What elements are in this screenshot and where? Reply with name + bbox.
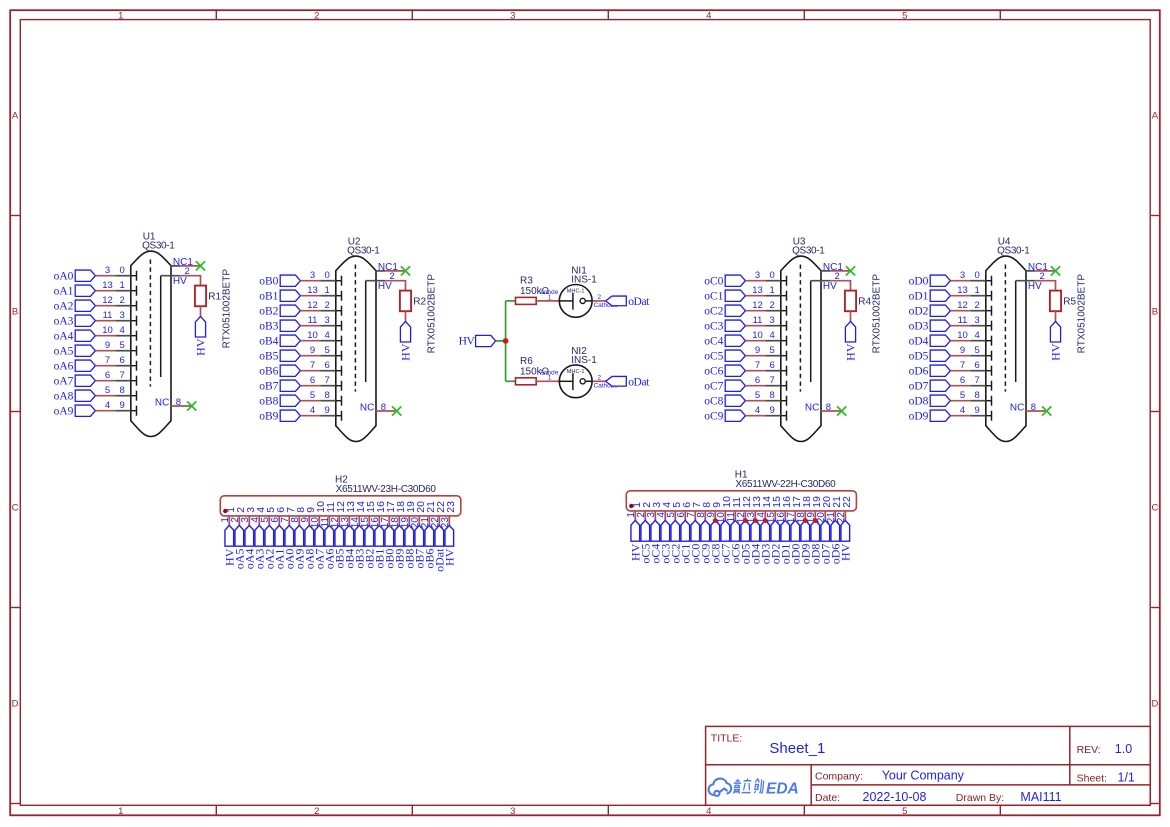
pin 4 (9) of U4 with net flag oD9 bbox=[909, 405, 992, 423]
svg-text:oD8: oD8 bbox=[909, 396, 929, 408]
green wire vertical bbox=[505, 301, 507, 381]
svg-text:12: 12 bbox=[307, 300, 318, 311]
NI2 cathode electrode bbox=[580, 379, 585, 384]
svg-text:oB0: oB0 bbox=[259, 276, 278, 288]
pin 10 (4) of U3 with net flag oC4 bbox=[704, 330, 786, 348]
svg-text:7: 7 bbox=[310, 360, 315, 371]
svg-text:1: 1 bbox=[770, 285, 775, 296]
H2 pin 5 net oA2 bbox=[260, 507, 277, 570]
net flag oDat bbox=[606, 376, 627, 386]
svg-text:oA8: oA8 bbox=[54, 391, 74, 403]
svg-text:B: B bbox=[1152, 306, 1158, 317]
svg-text:9: 9 bbox=[755, 345, 760, 356]
svg-text:oD0: oD0 bbox=[909, 276, 929, 288]
pin 2 HV of U4 bbox=[1016, 271, 1045, 292]
svg-text:2: 2 bbox=[975, 300, 980, 311]
svg-text:5: 5 bbox=[310, 390, 315, 401]
H1 pin 8 net oC9 bbox=[696, 502, 713, 564]
NI1 anode electrode bbox=[559, 300, 573, 302]
H2 pin 17 net oB0 bbox=[380, 501, 397, 569]
svg-text:NC1: NC1 bbox=[173, 257, 193, 268]
pin 11 (3) of U1 with net flag oA3 bbox=[54, 310, 137, 328]
svg-text:oDat: oDat bbox=[628, 377, 650, 389]
svg-text:5: 5 bbox=[770, 345, 775, 356]
tube U2 anode line bbox=[365, 281, 367, 382]
svg-text:R2: R2 bbox=[413, 296, 426, 307]
resistor R4 bbox=[845, 291, 856, 312]
tube U4 cathode dashed line bbox=[1004, 265, 1006, 392]
wire to R6 bbox=[506, 380, 516, 382]
pin 10 (4) of U2 with net flag oB4 bbox=[259, 330, 341, 348]
svg-text:3: 3 bbox=[770, 315, 775, 326]
svg-text:Date:: Date: bbox=[815, 792, 840, 804]
svg-text:EDA: EDA bbox=[766, 780, 799, 797]
H2 pin 4 net oA3 bbox=[250, 507, 267, 570]
pin 1 NC1 of U2 with no-connect bbox=[376, 262, 410, 276]
svg-text:8: 8 bbox=[381, 402, 386, 413]
wire resistor R2 to HV flag bbox=[405, 311, 407, 321]
svg-text:23: 23 bbox=[446, 501, 457, 513]
svg-text:4: 4 bbox=[770, 330, 775, 341]
svg-text:4: 4 bbox=[755, 405, 760, 416]
pin 12 (2) of U1 with net flag oA2 bbox=[54, 295, 137, 313]
svg-text:5: 5 bbox=[902, 10, 907, 21]
svg-text:22: 22 bbox=[842, 496, 853, 508]
H2 pin1 marker bbox=[223, 509, 227, 513]
svg-text:D: D bbox=[1151, 698, 1158, 709]
H2 pin 6 net oA1 bbox=[270, 507, 287, 570]
svg-text:oB9: oB9 bbox=[259, 411, 278, 423]
H2 pin 21 net oB6 bbox=[420, 501, 437, 569]
H1 pin 12 net oD5 bbox=[736, 496, 753, 564]
svg-text:oD5: oD5 bbox=[909, 351, 929, 363]
H2 pin 10 net oA7 bbox=[310, 501, 327, 569]
tube U4 body bbox=[986, 256, 1026, 441]
H2 pin 8 net oA9 bbox=[290, 507, 307, 570]
svg-text:HV: HV bbox=[1028, 281, 1042, 292]
H1 pin 14 net oD3 bbox=[756, 496, 773, 564]
svg-text:oC8: oC8 bbox=[704, 396, 723, 408]
pin 9 (5) of U3 with net flag oC5 bbox=[704, 345, 786, 363]
wire pin2 to resistor R4 bbox=[830, 281, 850, 291]
svg-text:oC2: oC2 bbox=[704, 306, 723, 318]
H2 pin 13 net oB4 bbox=[340, 501, 357, 569]
svg-text:1: 1 bbox=[118, 10, 123, 21]
pin 1 NC1 of U3 with no-connect bbox=[821, 262, 855, 276]
pin 6 (7) of U4 with net flag oD7 bbox=[909, 375, 992, 393]
svg-text:HV: HV bbox=[173, 276, 187, 287]
svg-text:3: 3 bbox=[510, 10, 515, 21]
tube U4 anode line bbox=[1015, 281, 1017, 382]
connector H2 body bbox=[220, 496, 460, 516]
svg-text:6: 6 bbox=[120, 355, 125, 366]
H1 pin 21 net oD6 bbox=[826, 496, 843, 564]
svg-text:oB2: oB2 bbox=[259, 306, 278, 318]
pin 3 (0) of U1 with net flag oA0 bbox=[54, 265, 137, 283]
svg-text:oC5: oC5 bbox=[704, 351, 723, 363]
svg-text:2: 2 bbox=[598, 294, 602, 301]
pin 2 HV of U1 bbox=[161, 266, 190, 287]
pin 1 NC1 of U1 with no-connect bbox=[171, 257, 205, 271]
svg-text:6: 6 bbox=[755, 375, 760, 386]
svg-text:7: 7 bbox=[975, 375, 980, 386]
pin 9 (5) of U1 with net flag oA5 bbox=[54, 340, 137, 358]
H1 pin 13 net oD4 bbox=[746, 496, 763, 564]
svg-text:11: 11 bbox=[103, 310, 113, 321]
H2 pin 23 net HV bbox=[440, 501, 457, 566]
net flag HV below R2 bbox=[400, 321, 410, 342]
svg-text:8: 8 bbox=[325, 390, 330, 401]
svg-text:7: 7 bbox=[755, 360, 760, 371]
svg-text:7: 7 bbox=[105, 355, 110, 366]
H2 pin 15 net oB2 bbox=[360, 501, 377, 569]
pin 4 (9) of U3 with net flag oC9 bbox=[704, 405, 786, 423]
svg-text:oA9: oA9 bbox=[54, 406, 74, 418]
JLC EDA logo hanzi bbox=[733, 779, 764, 794]
svg-text:13: 13 bbox=[307, 285, 318, 296]
svg-text:oB7: oB7 bbox=[259, 381, 278, 393]
svg-text:9: 9 bbox=[105, 340, 110, 351]
pin 5 (8) of U3 with net flag oC8 bbox=[704, 390, 786, 408]
svg-text:10: 10 bbox=[752, 330, 763, 341]
pin 7 (6) of U3 with net flag oC6 bbox=[704, 360, 786, 378]
svg-text:1/1: 1/1 bbox=[1118, 771, 1135, 785]
svg-text:oA5: oA5 bbox=[54, 346, 74, 358]
wire resistor R5 to HV flag bbox=[1055, 311, 1057, 321]
pin 12 (2) of U2 with net flag oB2 bbox=[259, 300, 341, 318]
svg-text:4: 4 bbox=[960, 405, 965, 416]
svg-text:TITLE:: TITLE: bbox=[711, 732, 743, 744]
resistor R2 bbox=[400, 291, 411, 312]
svg-text:NC: NC bbox=[1010, 403, 1024, 414]
wire pin2 to resistor R2 bbox=[385, 281, 405, 291]
svg-text:3: 3 bbox=[105, 265, 110, 276]
svg-text:R1: R1 bbox=[208, 291, 221, 302]
svg-text:C: C bbox=[12, 502, 19, 513]
H1 pin 15 net oD2 bbox=[766, 496, 783, 564]
svg-text:oD9: oD9 bbox=[909, 411, 929, 423]
pin 6 (7) of U3 with net flag oC7 bbox=[704, 375, 786, 393]
H1 pin 6 net oC1 bbox=[676, 502, 693, 564]
svg-text:NC1: NC1 bbox=[823, 262, 843, 273]
svg-text:HV: HV bbox=[843, 343, 857, 361]
H1 pin 16 net oD1 bbox=[776, 496, 793, 564]
svg-text:Company:: Company: bbox=[815, 770, 863, 782]
svg-text:Sheet_1: Sheet_1 bbox=[769, 740, 825, 757]
svg-text:11: 11 bbox=[958, 315, 968, 326]
svg-text:R4: R4 bbox=[858, 296, 871, 307]
NI2 anode electrode bbox=[559, 380, 573, 382]
svg-text:HV: HV bbox=[1048, 343, 1062, 361]
svg-text:QS30-1: QS30-1 bbox=[997, 246, 1030, 257]
svg-text:NC: NC bbox=[805, 403, 819, 414]
svg-text:12: 12 bbox=[957, 300, 968, 311]
svg-text:2: 2 bbox=[325, 300, 330, 311]
svg-text:3: 3 bbox=[755, 270, 760, 281]
H1 pin 11 net oC6 bbox=[726, 497, 743, 564]
svg-text:R6: R6 bbox=[520, 356, 533, 367]
svg-text:2022-10-08: 2022-10-08 bbox=[863, 790, 927, 804]
H1 pin 1 net HV bbox=[626, 502, 643, 561]
svg-text:oA4: oA4 bbox=[54, 331, 74, 343]
pin 8 NC of U1 with no-connect bbox=[155, 397, 196, 411]
H1 pin 20 net oD7 bbox=[816, 496, 833, 564]
pin 4 (9) of U1 with net flag oA9 bbox=[54, 400, 137, 418]
svg-text:4: 4 bbox=[120, 325, 125, 336]
svg-text:QS30-1: QS30-1 bbox=[142, 241, 175, 252]
svg-text:5: 5 bbox=[960, 390, 965, 401]
svg-text:3: 3 bbox=[325, 315, 330, 326]
svg-text:R3: R3 bbox=[520, 276, 533, 287]
svg-text:1: 1 bbox=[975, 285, 980, 296]
H1 pin 2 net oC5 bbox=[636, 502, 653, 564]
svg-text:oC9: oC9 bbox=[704, 411, 723, 423]
H2 pin 7 net oA0 bbox=[280, 507, 297, 570]
svg-text:2: 2 bbox=[314, 10, 319, 21]
pin 8 NC of U2 with no-connect bbox=[360, 402, 401, 416]
svg-text:B: B bbox=[12, 306, 18, 317]
H2 pin 11 net oA6 bbox=[320, 502, 337, 570]
svg-text:A: A bbox=[12, 110, 19, 121]
H2 pin 12 net oB5 bbox=[330, 501, 347, 569]
svg-text:5: 5 bbox=[975, 345, 980, 356]
net flag oDat bbox=[606, 296, 627, 306]
svg-text:0: 0 bbox=[325, 270, 330, 281]
NI1 cathode electrode bbox=[580, 298, 585, 303]
svg-text:0: 0 bbox=[975, 270, 980, 281]
svg-text:4: 4 bbox=[975, 330, 980, 341]
tube U3 body bbox=[781, 256, 821, 441]
H1 pin 7 net oC0 bbox=[686, 502, 703, 564]
tube U3 anode line bbox=[810, 281, 812, 382]
svg-text:10: 10 bbox=[102, 325, 113, 336]
H1 pin 3 net oC4 bbox=[646, 502, 663, 564]
resistor R1 bbox=[195, 286, 206, 307]
svg-text:R5: R5 bbox=[1063, 296, 1076, 307]
wire NI1 to oDat flag bbox=[593, 300, 606, 302]
tube U1 body bbox=[131, 251, 171, 436]
svg-text:NC: NC bbox=[360, 403, 374, 414]
H1 pin 10 net oC7 bbox=[716, 496, 733, 564]
svg-text:13: 13 bbox=[752, 285, 763, 296]
svg-text:2: 2 bbox=[598, 374, 602, 381]
pin 7 (6) of U2 with net flag oB6 bbox=[259, 360, 341, 378]
svg-text:1: 1 bbox=[118, 806, 123, 817]
H2 pin 14 net oB3 bbox=[350, 501, 367, 569]
svg-text:X6511WV-22H-C30D60: X6511WV-22H-C30D60 bbox=[735, 479, 836, 490]
wire HV to junction bbox=[496, 340, 506, 342]
svg-text:C: C bbox=[1151, 502, 1158, 513]
svg-text:HV: HV bbox=[442, 548, 456, 566]
svg-text:oC1: oC1 bbox=[704, 291, 723, 303]
svg-text:6: 6 bbox=[105, 370, 110, 381]
svg-text:MAI111: MAI111 bbox=[1020, 790, 1061, 804]
svg-text:MHC-1: MHC-1 bbox=[567, 369, 585, 375]
svg-text:4: 4 bbox=[706, 10, 711, 21]
junction bbox=[503, 338, 509, 344]
svg-text:5: 5 bbox=[120, 340, 125, 351]
H1 pin 22 net HV bbox=[836, 496, 853, 561]
svg-text:9: 9 bbox=[325, 405, 330, 416]
svg-text:oB6: oB6 bbox=[259, 366, 278, 378]
svg-text:3: 3 bbox=[310, 270, 315, 281]
svg-text:7: 7 bbox=[325, 375, 330, 386]
svg-text:oB8: oB8 bbox=[259, 396, 278, 408]
svg-text:11: 11 bbox=[753, 315, 763, 326]
tube U2 body bbox=[336, 256, 376, 441]
svg-text:REV:: REV: bbox=[1077, 744, 1101, 756]
pin 12 (2) of U4 with net flag oD2 bbox=[909, 300, 992, 318]
pin 9 (5) of U2 with net flag oB5 bbox=[259, 345, 341, 363]
svg-text:oB1: oB1 bbox=[259, 291, 278, 303]
net flag HV below R1 bbox=[195, 316, 205, 337]
H2 pin 22 net oDat bbox=[430, 501, 447, 572]
svg-text:4: 4 bbox=[105, 400, 110, 411]
svg-text:oC0: oC0 bbox=[704, 276, 723, 288]
svg-text:9: 9 bbox=[975, 405, 980, 416]
svg-text:oC3: oC3 bbox=[704, 321, 723, 333]
tube U1 cathode dashed line bbox=[149, 260, 151, 387]
svg-text:oD3: oD3 bbox=[909, 321, 929, 333]
svg-text:Drawn By:: Drawn By: bbox=[956, 792, 1004, 804]
svg-text:NC1: NC1 bbox=[1028, 262, 1048, 273]
pin 6 (7) of U1 with net flag oA7 bbox=[54, 370, 137, 388]
tube U2 cathode dashed line bbox=[354, 265, 356, 392]
svg-text:13: 13 bbox=[102, 280, 113, 291]
resistor R5 bbox=[1050, 291, 1061, 312]
svg-text:4: 4 bbox=[310, 405, 315, 416]
pin 5 (8) of U1 with net flag oA8 bbox=[54, 385, 137, 403]
wire pin2 to resistor R1 bbox=[180, 276, 200, 286]
svg-text:oD2: oD2 bbox=[909, 306, 929, 318]
H2 pin 9 net oA8 bbox=[300, 507, 317, 570]
svg-text:oDat: oDat bbox=[628, 296, 650, 308]
svg-text:oB3: oB3 bbox=[259, 321, 278, 333]
svg-text:10: 10 bbox=[957, 330, 968, 341]
svg-text:oD4: oD4 bbox=[909, 336, 929, 348]
pin 1 NC1 of U4 with no-connect bbox=[1026, 262, 1060, 276]
svg-text:9: 9 bbox=[120, 400, 125, 411]
pin 9 (5) of U4 with net flag oD5 bbox=[909, 345, 992, 363]
pin 3 (0) of U3 with net flag oC0 bbox=[704, 270, 786, 288]
svg-text:7: 7 bbox=[960, 360, 965, 371]
H1 pin 18 net oD9 bbox=[796, 496, 813, 564]
H1 pin 4 net oC3 bbox=[656, 502, 673, 564]
connector H1 body bbox=[626, 491, 856, 511]
svg-text:2: 2 bbox=[120, 295, 125, 306]
svg-text:3: 3 bbox=[960, 270, 965, 281]
svg-text:HV: HV bbox=[193, 338, 207, 356]
svg-text:5: 5 bbox=[105, 385, 110, 396]
wire R6 to NI2 bbox=[536, 380, 559, 382]
wire R3 to NI1 bbox=[536, 300, 559, 302]
svg-text:RTX051002BETP: RTX051002BETP bbox=[1077, 274, 1088, 354]
svg-text:3: 3 bbox=[510, 806, 515, 817]
svg-text:9: 9 bbox=[960, 345, 965, 356]
svg-text:QS30-1: QS30-1 bbox=[792, 246, 825, 257]
H1 pin 9 net oC8 bbox=[706, 502, 723, 564]
pin 4 (9) of U2 with net flag oB9 bbox=[259, 405, 341, 423]
H1 pin 17 net oD0 bbox=[786, 496, 803, 564]
svg-text:4: 4 bbox=[325, 330, 330, 341]
H2 pin 16 net oB1 bbox=[370, 501, 387, 569]
wire to R3 bbox=[506, 300, 516, 302]
pin 8 NC of U3 with no-connect bbox=[805, 402, 846, 416]
svg-text:13: 13 bbox=[957, 285, 968, 296]
svg-text:10: 10 bbox=[307, 330, 318, 341]
svg-text:Sheet:: Sheet: bbox=[1077, 773, 1107, 785]
H2 pin 3 net oA4 bbox=[240, 507, 257, 570]
pin 6 (7) of U2 with net flag oB7 bbox=[259, 375, 341, 393]
H1 pin 19 net oD8 bbox=[806, 496, 823, 564]
svg-text:12: 12 bbox=[102, 295, 113, 306]
svg-text:5: 5 bbox=[755, 390, 760, 401]
H2 pin 19 net oB8 bbox=[400, 501, 417, 569]
H2 pin 18 net oB9 bbox=[390, 501, 407, 569]
svg-text:8: 8 bbox=[1031, 402, 1036, 413]
svg-text:2: 2 bbox=[314, 806, 319, 817]
svg-text:23: 23 bbox=[440, 517, 451, 529]
tube U1 anode line bbox=[160, 276, 162, 377]
pin 13 (1) of U2 with net flag oB1 bbox=[259, 285, 341, 303]
svg-text:1: 1 bbox=[548, 294, 552, 301]
svg-text:6: 6 bbox=[975, 360, 980, 371]
svg-text:oB5: oB5 bbox=[259, 351, 278, 363]
JLC EDA logo cloud bbox=[709, 779, 732, 796]
svg-text:X6511WV-23H-C30D60: X6511WV-23H-C30D60 bbox=[336, 484, 437, 495]
svg-text:A: A bbox=[1152, 110, 1159, 121]
svg-text:oA3: oA3 bbox=[54, 316, 74, 328]
pin 13 (1) of U4 with net flag oD1 bbox=[909, 285, 992, 303]
svg-text:oC6: oC6 bbox=[704, 366, 723, 378]
svg-text:3: 3 bbox=[975, 315, 980, 326]
svg-text:oC7: oC7 bbox=[704, 381, 723, 393]
wire pin2 to resistor R5 bbox=[1035, 281, 1055, 291]
H1 pin 5 net oC2 bbox=[666, 502, 683, 564]
pin 13 (1) of U1 with net flag oA1 bbox=[54, 280, 137, 298]
svg-text:RTX051002BETP: RTX051002BETP bbox=[872, 274, 883, 354]
svg-text:6: 6 bbox=[770, 360, 775, 371]
H2 pin 20 net oB7 bbox=[410, 501, 427, 569]
tube U3 cathode dashed line bbox=[799, 265, 801, 392]
svg-text:MHC-1: MHC-1 bbox=[567, 289, 585, 295]
svg-text:oA6: oA6 bbox=[54, 361, 74, 373]
H1 pin1 marker bbox=[629, 504, 633, 508]
pin 2 HV of U2 bbox=[366, 271, 395, 292]
pin 10 (4) of U1 with net flag oA4 bbox=[54, 325, 137, 343]
svg-text:RTX051002BETP: RTX051002BETP bbox=[222, 269, 233, 349]
svg-text:6: 6 bbox=[325, 360, 330, 371]
pin 12 (2) of U3 with net flag oC2 bbox=[704, 300, 786, 318]
svg-text:8: 8 bbox=[975, 390, 980, 401]
svg-text:HV: HV bbox=[459, 336, 476, 348]
svg-text:5: 5 bbox=[325, 345, 330, 356]
svg-text:9: 9 bbox=[310, 345, 315, 356]
svg-text:7: 7 bbox=[120, 370, 125, 381]
pin 3 (0) of U4 with net flag oD0 bbox=[909, 270, 992, 288]
svg-text:8: 8 bbox=[826, 402, 831, 413]
pin 7 (6) of U1 with net flag oA6 bbox=[54, 355, 137, 373]
svg-text:NC1: NC1 bbox=[378, 262, 398, 273]
pin 13 (1) of U3 with net flag oC1 bbox=[704, 285, 786, 303]
svg-text:oA1: oA1 bbox=[54, 286, 74, 298]
svg-text:oA7: oA7 bbox=[54, 376, 74, 388]
H2 pin 2 net oA5 bbox=[230, 507, 247, 570]
net flag HV below R5 bbox=[1050, 321, 1060, 342]
pin 5 (8) of U2 with net flag oB8 bbox=[259, 390, 341, 408]
svg-text:0: 0 bbox=[770, 270, 775, 281]
svg-text:Your Company: Your Company bbox=[882, 768, 965, 782]
